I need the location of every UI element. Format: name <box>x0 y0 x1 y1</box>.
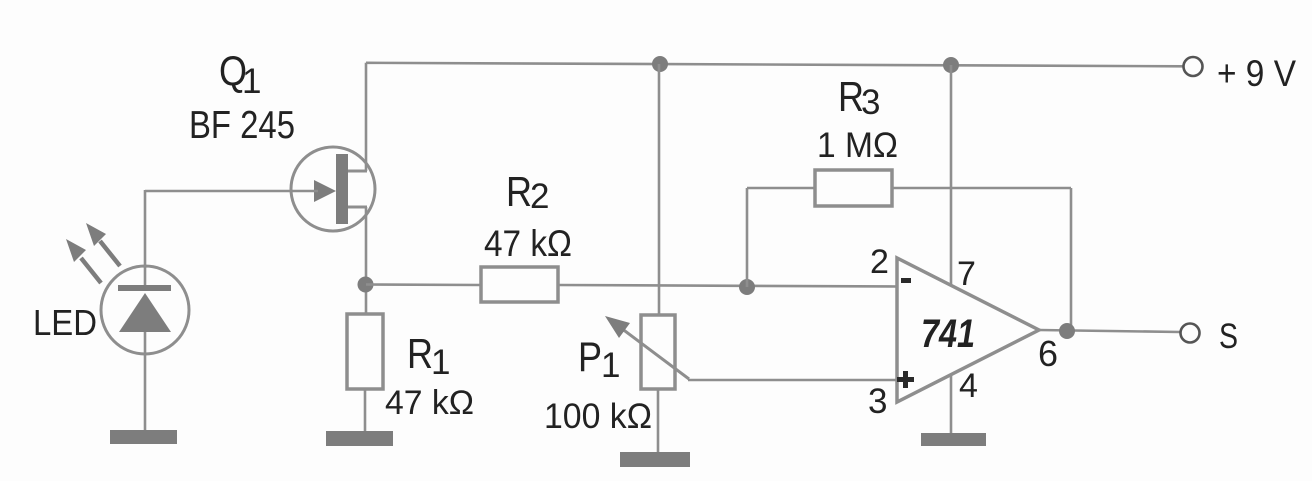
pin 4 label <box>959 367 978 405</box>
wire P1 to ground <box>657 389 660 453</box>
label R2 <box>506 168 549 216</box>
minus sign inverting input <box>901 278 911 283</box>
svg-text:BF 245: BF 245 <box>189 104 295 147</box>
terminal +9V <box>1184 57 1203 76</box>
svg-text:47 kΩ: 47 kΩ <box>484 223 572 264</box>
wire rail down to P1 <box>658 64 661 316</box>
svg-text:4: 4 <box>959 367 978 405</box>
svg-text:P: P <box>578 333 602 380</box>
wire to R3 left <box>747 187 815 190</box>
ground below R1 <box>326 431 393 446</box>
node source junction <box>358 277 374 293</box>
wire pin 7 to rail <box>950 65 953 285</box>
svg-text:2: 2 <box>870 243 889 281</box>
svg-text:47 kΩ: 47 kΩ <box>385 384 474 422</box>
svg-text:+ 9 V: + 9 V <box>1217 53 1296 94</box>
LED light arrow upper <box>86 223 120 266</box>
svg-text:S: S <box>1219 317 1238 356</box>
plus sign non-inverting input <box>897 371 914 388</box>
ground below P1 <box>620 452 690 467</box>
svg-text:7: 7 <box>957 255 976 293</box>
label S <box>1219 317 1238 356</box>
svg-text:1 MΩ: 1 MΩ <box>817 126 898 165</box>
ground below LED <box>110 430 177 444</box>
wire R3 down to output <box>1070 188 1073 331</box>
svg-text:3: 3 <box>861 83 880 122</box>
node inverting input junction <box>739 279 755 295</box>
ground below op-amp <box>921 433 986 446</box>
wire pin 4 to ground <box>950 374 953 434</box>
svg-text:6: 6 <box>1038 333 1058 374</box>
svg-text:R: R <box>506 168 532 215</box>
resistor R2 <box>481 267 558 302</box>
wire R3 right <box>892 187 1071 190</box>
svg-text:100 kΩ: 100 kΩ <box>544 397 652 436</box>
wire junction to R2 <box>366 283 481 286</box>
pin 7 label <box>957 255 976 293</box>
svg-text:1: 1 <box>601 346 620 385</box>
svg-text:LED: LED <box>33 302 97 343</box>
wire Q1 source down to R1 <box>365 207 368 314</box>
label +9V <box>1217 53 1296 94</box>
wire R1 to ground <box>364 389 367 432</box>
wire gate of Q1 <box>145 190 318 193</box>
LED <box>101 266 189 354</box>
svg-text:3: 3 <box>868 382 887 421</box>
potentiometer P1 <box>605 315 689 389</box>
node supply rail to P1 <box>652 56 668 72</box>
node supply rail to pin 7 <box>943 57 959 73</box>
resistor R1 <box>347 314 383 389</box>
wire Q1 source stub <box>348 206 367 209</box>
terminal S <box>1181 324 1200 343</box>
transistor Q1 <box>291 147 375 231</box>
svg-text:1: 1 <box>242 62 261 101</box>
LED light arrow lower <box>66 239 101 283</box>
svg-text:1: 1 <box>431 343 450 382</box>
wire P1 wiper to non-inverting input <box>688 379 897 382</box>
label Q1 <box>219 47 261 101</box>
wire top supply rail <box>366 63 1184 67</box>
label R1 <box>407 330 450 382</box>
svg-text:R: R <box>407 330 433 377</box>
pin 2 label <box>870 243 889 281</box>
wire LED anode up to gate <box>144 190 147 268</box>
node output junction <box>1059 323 1075 339</box>
svg-text:741: 741 <box>921 312 975 356</box>
wire Q1 drain to rail <box>365 63 368 171</box>
wire Q1 drain stub <box>348 170 367 173</box>
value 47 kOhm of R2 <box>484 223 572 264</box>
label P1 <box>578 333 620 385</box>
value 47 kOhm of R1 <box>385 384 474 422</box>
wire LED cathode to ground <box>144 332 147 431</box>
wire R2 to inverting input <box>558 285 897 287</box>
wire output <box>1039 330 1180 332</box>
label R3 <box>838 73 880 122</box>
op-amp U1 741 <box>897 258 1039 402</box>
value 100 kOhm of P1 <box>544 397 652 436</box>
value 1 MOhm of R3 <box>817 126 898 165</box>
label 741 <box>921 312 975 356</box>
label BF 245 <box>189 104 295 147</box>
svg-text:2: 2 <box>530 177 549 216</box>
resistor R3 <box>815 170 892 206</box>
pin 3 label <box>868 382 887 421</box>
pin 6 label <box>1038 333 1058 374</box>
wire junction up to R3 <box>746 188 749 287</box>
label LED <box>33 302 97 343</box>
